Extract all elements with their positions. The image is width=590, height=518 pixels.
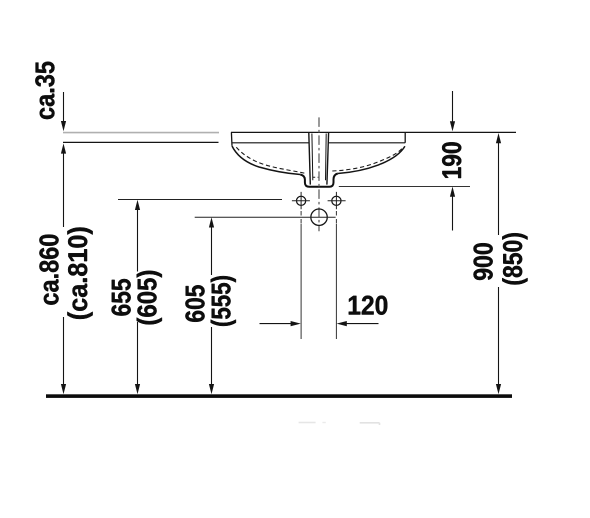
drain stub outline [300,174,338,187]
dim ca.860 line upper segment with up arrow [63,153,65,227]
dim 605 line lower segment with down arrow [211,327,213,385]
dim ca.860 line lower segment with down arrow [63,317,65,385]
overflow column inner right wall [325,134,328,181]
overflow column outer right wall [327,133,329,185]
dim 655 line upper segment with up arrow [137,209,139,272]
bowl inner surface dashed right [332,147,403,171]
faint watermark remnants [299,422,316,424]
extension line right for 120 dim [335,211,337,224]
dim 120 right arrow line [346,323,379,325]
overflow column inner left wall [311,134,314,181]
label (850) [502,233,527,284]
reference line for 605 dim (drain height) through drain circle [195,216,336,218]
dim 190 lower arrow line (up arrow to stub line) [452,196,454,231]
drain hole circle [311,209,327,225]
faucet hole right crosshair [328,192,346,209]
faucet hole right circle [332,196,341,205]
label 605 [185,285,204,322]
dim 190 upper arrow line (down arrow to rim line) [452,91,454,122]
faucet hole left circle [297,196,306,205]
label 655 [111,279,130,316]
label (605) [137,271,162,325]
countertop top surface (gray line) [63,132,219,134]
label 190 [442,142,461,178]
dim ca.35 upper arrow line [63,92,65,122]
faucet hole left crosshair [292,192,310,209]
label (ca.810) [67,228,92,319]
basin left rim edge [230,132,233,145]
bowl inner surface dashed left [236,147,306,173]
basin rim underside line [233,142,406,144]
bowl outer wall right [338,146,405,173]
reference line at drain stub bottom for 190 dim [339,186,470,188]
label ca.35 [35,62,54,119]
dim 605 line upper segment with up arrow [211,226,213,275]
basin right rim edge [404,132,406,142]
label 900 [474,243,493,280]
dim 120 left arrow line [260,323,292,325]
extension line left for 120 dim [300,211,302,224]
dim 900 line lower segment with down arrow [498,287,500,385]
vertical centerline (dash-dot) [318,117,320,231]
dim 900 line upper segment with up arrow [498,143,500,236]
label 120 [349,296,388,315]
hidden drain bottom dashed inside column [313,176,319,178]
reference line for 655 dim (faucet hole height) [118,199,282,201]
bowl outer wall left [232,146,300,175]
dim 655 line lower segment with down arrow [137,322,139,385]
floor line [46,394,512,398]
overflow column outer left wall [309,133,311,185]
label ca.860 [39,235,58,305]
countertop underside (black line) [63,141,219,143]
label (555) [211,276,236,326]
basin rim top line and extension line to right dimension [231,131,516,133]
